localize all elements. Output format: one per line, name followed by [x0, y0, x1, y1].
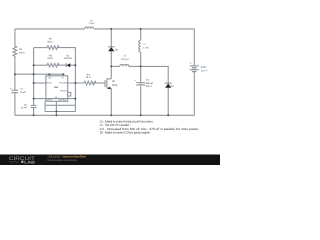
svg-text:TRIGGER: TRIGGER — [46, 82, 52, 85]
svg-text:10 Ω: 10 Ω — [86, 76, 91, 79]
svg-text:22 nF: 22 nF — [21, 107, 27, 110]
svg-text:Optionparty - Improved desulfa: Optionparty - Improved desulfator — [48, 155, 87, 159]
svg-text:110 µH: 110 µH — [121, 58, 129, 61]
svg-text:1 mH: 1 mH — [143, 47, 149, 50]
svg-text:10 µF: 10 µF — [20, 91, 27, 94]
svg-text:THRESHOLD: THRESHOLD — [60, 90, 68, 93]
svg-text:OUTPUT: OUTPUT — [46, 99, 53, 102]
svg-text:DISCHARGE: DISCHARGE — [59, 82, 68, 85]
svg-text:D2 - Added to prevent C3 from: D2 - Added to prevent C3 from going nega… — [100, 131, 151, 135]
svg-text:200 V: 200 V — [146, 85, 152, 88]
svg-text:100 Ω: 100 Ω — [19, 51, 25, 54]
svg-text:LAB: LAB — [24, 160, 35, 164]
svg-text:RESET: RESET — [48, 76, 52, 79]
svg-text:+: + — [190, 61, 192, 65]
svg-text:10.7 V: 10.7 V — [201, 70, 208, 73]
svg-text:680 µF: 680 µF — [146, 82, 154, 85]
svg-text:33 kΩ: 33 kΩ — [47, 57, 53, 60]
svg-text:1 mH: 1 mH — [89, 22, 95, 25]
svg-text:IRF530: IRF530 — [112, 84, 118, 87]
svg-text:http:∕∕circuitlab.com∕c∕pr5268: http:∕∕circuitlab.com∕c∕pr5268 — [47, 159, 77, 162]
svg-text:CONTROL: CONTROL — [58, 99, 67, 102]
svg-text:BAT2: BAT2 — [201, 66, 207, 69]
svg-text:1N4148: 1N4148 — [64, 57, 72, 60]
svg-text:560 Ω: 560 Ω — [48, 40, 53, 43]
